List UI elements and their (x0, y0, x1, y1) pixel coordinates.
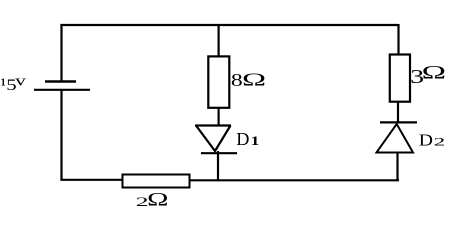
svg-text:8: 8 (231, 69, 243, 90)
svg-text:Ω: Ω (422, 62, 446, 83)
svg-text:D: D (236, 129, 249, 149)
svg-text:2: 2 (434, 136, 446, 149)
svg-text:v: v (15, 73, 27, 89)
svg-text:1: 1 (1, 78, 6, 89)
svg-text:1: 1 (251, 134, 260, 148)
svg-text:Ω: Ω (147, 190, 168, 210)
svg-text:D: D (419, 131, 433, 149)
svg-text:Ω: Ω (242, 70, 266, 90)
